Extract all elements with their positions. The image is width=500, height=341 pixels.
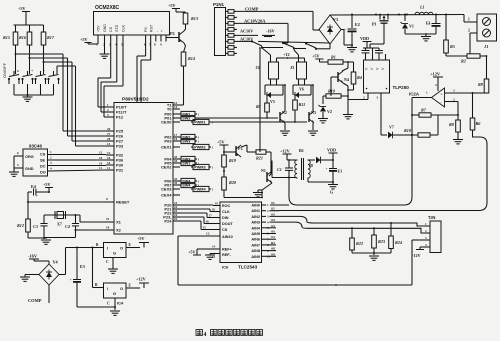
svg-text:11: 11 xyxy=(107,166,110,170)
svg-text:P24: P24 xyxy=(164,219,172,224)
svg-text:15: 15 xyxy=(203,226,207,230)
svg-text:AIN2: AIN2 xyxy=(251,215,260,219)
AC10V20A wire down to contacts xyxy=(283,23,288,43)
IC4 output +12V xyxy=(126,277,149,289)
svg-text:19: 19 xyxy=(106,217,110,221)
-16V input to Y4 xyxy=(28,254,49,265)
svg-text:12: 12 xyxy=(206,232,210,236)
svg-text:3: 3 xyxy=(377,96,379,100)
svg-text:R14: R14 xyxy=(188,56,195,61)
svg-text:SW4: SW4 xyxy=(182,184,191,188)
svg-text:+: + xyxy=(160,30,164,32)
net box SW4 group2 xyxy=(179,138,200,143)
svg-text:Y8: Y8 xyxy=(308,163,313,168)
svg-text:ON/OFF: ON/OFF xyxy=(2,62,7,78)
VDD label TLP supply xyxy=(360,36,372,48)
svg-text:ORG: ORG xyxy=(25,155,34,159)
svg-text:P33: P33 xyxy=(116,144,124,149)
resistor R15 xyxy=(3,25,18,45)
+5V for key pullups xyxy=(14,6,44,25)
resistor R20 xyxy=(222,177,262,198)
bridge rectifier V3 xyxy=(319,15,341,44)
svg-text:14: 14 xyxy=(212,245,216,249)
svg-text:A3: A3 xyxy=(271,218,275,222)
LCD pin numbers xyxy=(96,43,162,47)
svg-text:CS: CS xyxy=(40,153,46,157)
svg-text:13: 13 xyxy=(107,142,111,146)
regulator IC3 +5V xyxy=(104,243,127,258)
svg-text:18: 18 xyxy=(106,226,110,230)
svg-text:32: 32 xyxy=(174,181,178,185)
N1 emitter ground xyxy=(253,183,272,198)
capacitor C3 xyxy=(33,215,48,238)
wire rail to J1 pin1 xyxy=(464,15,477,23)
transistor N4 xyxy=(331,62,349,91)
relay coil J3 xyxy=(290,50,307,79)
svg-text:R18: R18 xyxy=(404,128,412,133)
svg-text:-16V: -16V xyxy=(266,29,275,34)
capacitor E1 of B1 xyxy=(326,160,343,182)
net box SW3 xyxy=(179,134,200,139)
key S2 xyxy=(21,69,33,95)
svg-text:G: G xyxy=(330,190,333,195)
key S3 plus xyxy=(34,69,46,95)
svg-text:G: G xyxy=(113,251,116,256)
decoupling cap C near TLP pin4 xyxy=(373,48,384,60)
svg-text:TLC2543: TLC2543 xyxy=(238,265,258,270)
svg-text:R13: R13 xyxy=(191,16,198,21)
svg-text:EOC: EOC xyxy=(222,204,230,208)
TLC2543 left pin names xyxy=(222,204,233,257)
svg-text:PWM2: PWM2 xyxy=(194,146,205,150)
svg-text:R19: R19 xyxy=(229,158,237,163)
op-amp pin2 wire xyxy=(445,102,460,117)
svg-text:AC16V: AC16V xyxy=(240,29,253,34)
svg-text:12: 12 xyxy=(99,151,103,155)
relay contact K2 xyxy=(262,42,295,50)
svg-text:REF-: REF- xyxy=(222,253,232,257)
svg-text:I: I xyxy=(107,286,108,291)
wire AIN10 long bus to T.IN pin3 xyxy=(178,240,424,286)
svg-text:17: 17 xyxy=(209,214,213,218)
AC10V20A wire xyxy=(237,19,288,24)
N3 emitter ground xyxy=(308,123,318,135)
transistor N1 xyxy=(261,163,272,183)
LCD pin labels xyxy=(97,24,165,32)
flyback diode V5 xyxy=(265,79,285,104)
flyback diode Y6 xyxy=(293,79,313,98)
capacitor E4 xyxy=(28,184,43,198)
wire AIN0 sense bus to op-amp output node xyxy=(270,136,412,205)
svg-text:P03: P03 xyxy=(164,139,172,144)
svg-text:P89V51RD2: P89V51RD2 xyxy=(122,97,149,103)
svg-text:2: 2 xyxy=(468,29,470,33)
LCD module OCM2X8C xyxy=(94,5,170,35)
net box PWM4 xyxy=(191,186,214,191)
svg-text:CEX0: CEX0 xyxy=(161,120,172,125)
svg-text:+5V: +5V xyxy=(18,6,26,11)
svg-text:CLK: CLK xyxy=(121,24,125,32)
svg-text:-16V: -16V xyxy=(28,254,38,259)
svg-text:1: 1 xyxy=(468,18,470,22)
svg-text:26: 26 xyxy=(107,127,111,131)
svg-text:V5: V5 xyxy=(270,99,275,104)
resistor R1 xyxy=(328,55,354,65)
relay contact K3 xyxy=(294,42,330,50)
AC16V lower wire xyxy=(237,37,330,44)
op-amp output wire pin1 xyxy=(411,98,432,137)
N2 emitter ground xyxy=(280,123,290,135)
svg-text:COMP: COMP xyxy=(245,7,259,12)
op-amp pin3 wire xyxy=(445,92,487,94)
wire keys to MCU P25 xyxy=(63,54,106,131)
svg-text:R16: R16 xyxy=(19,35,27,40)
wire bridge right to E2 node xyxy=(341,30,344,46)
svg-text:VDD: VDD xyxy=(327,148,336,153)
svg-text:R17: R17 xyxy=(47,35,55,40)
wire Y4 to regulators xyxy=(59,247,104,275)
resistor R12 xyxy=(17,201,30,232)
net box SW4b xyxy=(179,182,200,187)
svg-text:GND: GND xyxy=(25,167,34,171)
svg-text:B4: B4 xyxy=(271,241,275,245)
svg-text:+12V: +12V xyxy=(430,72,441,77)
LCD pin stubs xyxy=(98,35,166,42)
capacitor E3 xyxy=(70,248,85,308)
svg-text:+5V: +5V xyxy=(188,250,196,255)
resistor R24 xyxy=(389,223,402,253)
svg-text:CEX2: CEX2 xyxy=(161,165,172,170)
MCU left pin names xyxy=(106,103,130,232)
transistor N3 xyxy=(309,84,316,123)
crystal X7 xyxy=(44,211,80,227)
output filter ground xyxy=(405,33,436,41)
transistor P2 xyxy=(170,24,186,43)
svg-text:E3: E3 xyxy=(80,264,85,269)
svg-text:CEX3: CEX3 xyxy=(161,187,172,192)
svg-text:10: 10 xyxy=(99,162,103,166)
svg-text:PWM3: PWM3 xyxy=(194,166,205,170)
svg-text:+: + xyxy=(428,22,430,26)
svg-text:AIN1: AIN1 xyxy=(251,209,260,213)
resistor R16 xyxy=(19,25,32,45)
zener V1 xyxy=(401,14,414,35)
svg-text:R10: R10 xyxy=(328,89,336,94)
wire 93C46 SE to MCU P36 xyxy=(48,156,107,161)
ADC TLC2543 xyxy=(220,202,262,270)
svg-text:R15: R15 xyxy=(3,35,10,40)
wire keys to MCU P26 xyxy=(68,58,107,136)
AC16V -16V wire xyxy=(237,29,275,37)
wire keys to MCU P27 xyxy=(72,62,106,141)
svg-text:18: 18 xyxy=(212,208,216,212)
capacitor E2 xyxy=(344,15,360,52)
svg-text:12: 12 xyxy=(107,151,111,155)
svg-text:T.IN: T.IN xyxy=(428,215,435,220)
TLC2543 REF- ground xyxy=(205,254,220,260)
bridge rectifier Y4 xyxy=(39,260,59,286)
MCU P89V51RD2 xyxy=(114,97,173,235)
svg-text:93C46: 93C46 xyxy=(29,144,42,149)
svg-text:CLK: CLK xyxy=(222,210,230,214)
wire LCD data to MCU P12 xyxy=(104,42,123,118)
svg-text:9: 9 xyxy=(106,197,108,201)
svg-text:Y6: Y6 xyxy=(299,87,304,92)
resistor R5 relay driver xyxy=(256,94,269,119)
+5V for reset xyxy=(43,182,53,193)
T.IN pin stubs xyxy=(424,222,430,247)
svg-text:V1: V1 xyxy=(409,24,414,29)
resistor R17 xyxy=(41,25,55,45)
svg-text:+5V: +5V xyxy=(217,140,225,145)
svg-text:N4: N4 xyxy=(344,77,349,82)
svg-text:X2: X2 xyxy=(116,228,122,233)
svg-text:PS: PS xyxy=(144,27,148,32)
wire LCD pin to P2 base xyxy=(166,38,179,42)
svg-text:O: O xyxy=(120,286,123,291)
capacitor C1 xyxy=(277,159,293,177)
svg-text:10: 10 xyxy=(107,161,111,165)
wire PWM1 net to N3 base xyxy=(211,121,307,123)
svg-text:C: C xyxy=(107,302,110,306)
svg-text:2: 2 xyxy=(453,98,455,102)
resistor R4 xyxy=(351,62,362,90)
svg-text:A1: A1 xyxy=(271,207,275,211)
net box SW2 xyxy=(179,115,200,120)
svg-text:16: 16 xyxy=(107,156,111,160)
svg-text:A5: A5 xyxy=(271,230,275,234)
svg-text:X1: X1 xyxy=(116,220,122,225)
wires MCU P20-P24 to TLC2543 xyxy=(180,202,220,230)
svg-text:B1: B1 xyxy=(299,148,304,153)
svg-text:V3: V3 xyxy=(333,17,338,22)
resistor R11 xyxy=(293,94,306,123)
wire AIN1 sense bus to R6 node xyxy=(270,137,487,211)
svg-text:14: 14 xyxy=(174,105,178,109)
P1N1 pin pads xyxy=(226,10,238,56)
sense resistors common ground xyxy=(352,252,391,260)
wire crystal to X1 xyxy=(80,215,114,222)
wire keys to MCU P33 xyxy=(76,66,107,146)
svg-text:CS: CS xyxy=(109,26,113,32)
-12V at T.IN pin4 xyxy=(412,247,424,258)
svg-text:SE: SE xyxy=(40,159,46,163)
svg-text:X7: X7 xyxy=(57,222,62,227)
wire J1 pin2 xyxy=(468,29,477,43)
svg-text:CS: CS xyxy=(222,228,228,232)
resistor R8 xyxy=(449,115,463,144)
key S1 ON/OFF xyxy=(8,69,20,95)
svg-text:R21: R21 xyxy=(256,156,263,161)
svg-text:DIN: DIN xyxy=(222,216,229,220)
svg-text:R24: R24 xyxy=(395,240,402,245)
svg-text:J2: J2 xyxy=(256,65,260,70)
svg-text:E2: E2 xyxy=(355,22,360,27)
net box PWM3 xyxy=(191,164,214,169)
transistor P3 xyxy=(224,145,242,157)
op-amp IC2A xyxy=(409,83,455,107)
svg-text:AIN5: AIN5 xyxy=(251,232,260,236)
svg-text:28: 28 xyxy=(107,137,111,141)
keys common ground xyxy=(14,94,54,101)
svg-text:27: 27 xyxy=(107,132,111,136)
svg-text:1: 1 xyxy=(426,91,428,95)
svg-text:SW1: SW1 xyxy=(182,162,190,166)
N4 ground xyxy=(343,90,354,119)
svg-text:L1: L1 xyxy=(419,5,425,10)
wire SW2 net to N2 base xyxy=(197,117,278,119)
transformer B1 xyxy=(295,148,311,180)
+5V for R19 xyxy=(217,140,229,156)
VDD output of B1 xyxy=(327,148,338,161)
caption Figure 4 interface circuit xyxy=(196,330,263,339)
wire C4 to X2 xyxy=(75,226,115,232)
svg-text:+5V: +5V xyxy=(168,3,176,8)
svg-text:A2: A2 xyxy=(271,212,275,216)
svg-text:GND: GND xyxy=(103,24,107,32)
resistor R6 xyxy=(470,93,481,137)
svg-text:A4: A4 xyxy=(271,224,275,228)
svg-text:R1: R1 xyxy=(331,55,336,60)
svg-text:C3: C3 xyxy=(33,224,38,229)
+5V for R1 xyxy=(312,54,328,63)
svg-text:AIN8: AIN8 xyxy=(251,249,260,253)
svg-text:PWM1: PWM1 xyxy=(194,121,205,125)
svg-text:+12V: +12V xyxy=(280,149,290,154)
svg-text:N1: N1 xyxy=(261,168,266,173)
resistor R23 xyxy=(372,228,385,253)
svg-text:O: O xyxy=(120,246,123,251)
svg-text:+5V: +5V xyxy=(312,54,320,59)
svg-text:+12V: +12V xyxy=(136,277,146,282)
resistor R3 xyxy=(444,14,455,57)
svg-text:C4: C4 xyxy=(65,224,70,229)
+12 supply for relays xyxy=(283,52,292,59)
svg-text:AIN4: AIN4 xyxy=(251,226,261,230)
crystal ground xyxy=(41,237,76,244)
svg-text:DO: DO xyxy=(40,171,46,175)
connector T.IN xyxy=(428,215,441,253)
wire LCD RST pin xyxy=(141,42,151,103)
svg-text:R22: R22 xyxy=(356,241,363,246)
svg-text:+5V: +5V xyxy=(80,37,88,42)
svg-text:N2: N2 xyxy=(282,110,287,115)
TLP250 top pin stubs xyxy=(385,54,387,60)
svg-text:P12: P12 xyxy=(116,115,124,120)
svg-text:+: + xyxy=(70,278,72,282)
top DC rail xyxy=(330,14,464,16)
connector P1N1 xyxy=(213,2,226,56)
svg-text:+5V: +5V xyxy=(43,182,51,187)
COMP net wire xyxy=(237,7,320,31)
svg-text:R23: R23 xyxy=(378,239,385,244)
svg-text:3: 3 xyxy=(453,89,455,93)
Y4 left ground xyxy=(20,275,39,282)
MCU right pin names xyxy=(161,101,180,223)
svg-text:P2: P2 xyxy=(170,31,175,36)
svg-text:V1: V1 xyxy=(271,201,275,205)
connector J1 xyxy=(477,14,497,49)
resistor R18 output network xyxy=(404,115,438,137)
svg-text:34: 34 xyxy=(174,159,178,163)
svg-text:4: 4 xyxy=(435,83,437,87)
svg-text:OCM2X8C: OCM2X8C xyxy=(95,5,120,11)
svg-text:RESET: RESET xyxy=(116,200,130,205)
svg-text:E1: E1 xyxy=(338,169,343,174)
svg-text:A8: A8 xyxy=(271,247,275,251)
TLC2543 REF+ +5V xyxy=(188,245,220,256)
net box PWM1 xyxy=(191,119,214,124)
key S4 minus xyxy=(47,71,59,95)
+5V for R13 xyxy=(168,3,186,12)
resistor R14 xyxy=(181,43,195,66)
wire to IC4 input xyxy=(93,243,104,288)
svg-text:C: C xyxy=(106,260,109,264)
IC3 output +5V xyxy=(126,236,149,248)
svg-text:AIN10: AIN10 xyxy=(222,235,233,239)
transistor N2 xyxy=(280,84,287,123)
svg-text:C1: C1 xyxy=(277,167,282,172)
wire R14 to MCU T1 xyxy=(180,66,184,105)
+12V for B1 xyxy=(280,149,296,161)
svg-text:CEX1: CEX1 xyxy=(161,145,172,150)
resistor R10 xyxy=(323,77,349,98)
svg-text:V2: V2 xyxy=(327,109,332,114)
svg-text:S: S xyxy=(17,69,19,73)
wire 93C46 CS to MCU P32 xyxy=(48,150,107,155)
svg-text:AIN0: AIN0 xyxy=(251,204,260,208)
svg-text:I: I xyxy=(107,246,108,251)
svg-text:SW3: SW3 xyxy=(182,140,190,144)
resistor R13 xyxy=(183,13,198,24)
svg-text:IC6: IC6 xyxy=(222,265,229,270)
svg-text:+: + xyxy=(31,69,33,73)
svg-text:A9: A9 xyxy=(271,252,275,256)
svg-text:4: 4 xyxy=(204,332,207,338)
svg-text:G: G xyxy=(113,291,116,296)
svg-text:R5: R5 xyxy=(450,44,455,49)
pass transistor P1 xyxy=(363,14,389,48)
svg-text:V4: V4 xyxy=(271,235,275,239)
svg-text:DC: DC xyxy=(40,165,46,169)
svg-text:+: + xyxy=(36,194,38,198)
net box SW3 group3 xyxy=(179,156,200,161)
svg-text:TLP250: TLP250 xyxy=(393,85,410,90)
inductor L1 xyxy=(415,5,433,15)
B1 secondary return ground G xyxy=(308,178,338,195)
wire AIN3 to T.IN pin2 xyxy=(270,222,424,233)
svg-text:+: + xyxy=(441,93,443,97)
svg-text:P1N1: P1N1 xyxy=(213,2,225,7)
key ON/OFF label xyxy=(2,62,7,78)
svg-text:AIN6: AIN6 xyxy=(251,238,260,242)
relay coil J2 xyxy=(256,48,285,79)
wire R12 to ground line xyxy=(28,232,44,238)
wire AIN2 to T.IN pin1 xyxy=(270,216,424,226)
svg-text:IC4: IC4 xyxy=(117,301,124,306)
svg-text:16: 16 xyxy=(174,137,178,141)
wire 93C46 DO to MCU P31 xyxy=(48,166,107,171)
svg-text:+5V: +5V xyxy=(137,236,145,241)
svg-text:+12: +12 xyxy=(283,52,290,57)
svg-text:-12V: -12V xyxy=(412,253,421,258)
svg-text:P1: P1 xyxy=(372,22,377,27)
IC4 ground xyxy=(77,298,120,315)
vertical routing wire xyxy=(259,47,261,152)
COMP net at Y4 xyxy=(28,285,49,303)
key column wires xyxy=(15,45,76,74)
resistor R9 xyxy=(478,56,489,93)
